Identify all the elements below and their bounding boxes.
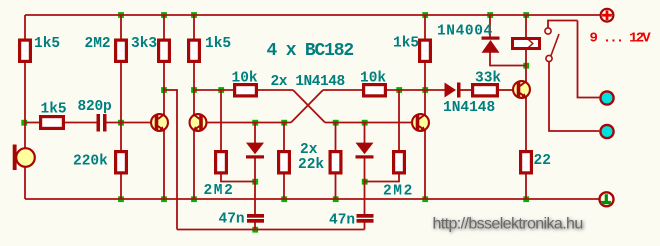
svg-text:1k5: 1k5 <box>41 102 67 118</box>
svg-text:22k: 22k <box>298 157 324 173</box>
wire junction down to C47n-2 top <box>364 182 366 215</box>
svg-text:http://bsselektronika.hu: http://bsselektronika.hu <box>433 216 583 233</box>
wire 22k-1 bottom <box>283 175 285 200</box>
wire bottom rail y=229.5 <box>177 229 365 231</box>
resistor 2M2-1 <box>216 152 227 173</box>
wire C47n-1 bottom to rail <box>254 223 256 230</box>
wire switch common down <box>549 62 599 131</box>
wire switch top to corner <box>548 21 578 28</box>
wire upper right of X to 10k-2 <box>323 89 362 91</box>
terminal output NO (cyan) <box>600 91 613 104</box>
node 220k top <box>118 120 124 126</box>
node Q1 collector <box>161 87 167 93</box>
capacitor 47n-1 plates <box>247 214 264 218</box>
wire Q3 collector <box>424 90 426 116</box>
wire Q2 base row <box>203 122 291 124</box>
wire column x=164 3k3 top <box>163 15 165 39</box>
wire column x=399 down to 2M2-2 <box>398 90 400 150</box>
wire column x=490 top to 1N4004 <box>489 15 491 37</box>
wire bottom rail up to C47n-2 <box>364 223 366 230</box>
resistor 22k-2 <box>330 152 341 173</box>
wire 1k5-5 to y90 junction <box>424 63 426 90</box>
resistor 10k-2 <box>364 85 386 96</box>
terminal ground <box>600 192 614 206</box>
node Q2 collector <box>191 87 197 93</box>
svg-text:10k: 10k <box>360 71 386 87</box>
node Q4 collector/relay <box>523 63 529 69</box>
transistor Q3 BC182 <box>412 114 429 131</box>
svg-text:2M2: 2M2 <box>204 183 235 199</box>
svg-text:47n: 47n <box>219 212 245 228</box>
node 22k-1/gnd <box>281 196 287 202</box>
resistor 22 <box>521 152 532 173</box>
wire 2M2-1 bottom <box>221 175 255 182</box>
node 3k3/+V rail <box>161 12 167 18</box>
node 220k/gnd rail <box>118 196 124 202</box>
wire 22ohm to ground rail <box>525 175 527 200</box>
node 22k-1 top <box>281 120 287 126</box>
microphone MIC <box>13 145 35 171</box>
diode D2 1N4148 vertical <box>356 143 374 155</box>
wire Q2 emitter <box>193 129 195 199</box>
wire diode2 to junction 181 <box>364 158 366 182</box>
wire column x=121 top <box>120 15 122 39</box>
transistor Q2 BC182 (mirrored) <box>190 114 207 131</box>
node Q2 emitter/gnd <box>191 196 197 202</box>
node D2 top <box>362 120 368 126</box>
wire cross-couple top horizontal <box>164 89 178 91</box>
svg-text:10k: 10k <box>232 71 258 87</box>
svg-text:22: 22 <box>534 153 551 169</box>
wire left column x=25 top <box>24 15 26 39</box>
wire column x=364.5 to diode2 <box>364 123 366 144</box>
terminal +V <box>601 9 614 22</box>
wire diode1 to junction 181 <box>254 158 256 182</box>
node 2M2-2 top <box>396 87 402 93</box>
node 22ohm/gnd <box>523 196 529 202</box>
wire 2M2-2 bottom <box>365 175 400 182</box>
wire column x=221 down to 2M2 <box>220 90 222 150</box>
resistor 1k5 (Q3 collector) <box>420 40 431 61</box>
node D1 top <box>252 120 258 126</box>
resistor 10k-1 <box>235 85 257 96</box>
node mic/R1 <box>21 120 27 126</box>
node 2M2-1 top <box>218 87 224 93</box>
wire 33k to Q4 base <box>499 89 513 91</box>
svg-text:2x 1N4148: 2x 1N4148 <box>271 74 345 90</box>
wire R-1k5h to C820p <box>65 122 97 124</box>
svg-text:220k: 220k <box>73 154 108 170</box>
wire 22k-2 bottom <box>335 175 337 200</box>
wire column x=425 1k5 top <box>424 15 426 39</box>
wire ground rail y=199 <box>25 198 599 200</box>
wire column x=526 top rail to relay <box>525 15 527 37</box>
wire diagonal lower-left to upper-right <box>291 90 323 123</box>
resistor 220k <box>116 152 127 173</box>
svg-text:1k5: 1k5 <box>205 36 231 52</box>
svg-text:820p: 820p <box>78 99 113 115</box>
node D1/2M2-1/C47n-1 <box>252 179 258 185</box>
wire Q1 emitter <box>163 129 165 199</box>
svg-text:33k: 33k <box>475 71 501 87</box>
node 22k-2/gnd <box>333 196 339 202</box>
capacitor 820p plates <box>97 114 374 223</box>
switch contact (relay) <box>545 28 559 62</box>
svg-text:1N4148: 1N4148 <box>443 100 495 116</box>
wire left column below R1 to mic <box>24 63 26 148</box>
wire C820p to Q1 base <box>107 122 152 124</box>
node 1N4004/+V rail <box>487 12 493 18</box>
node C47n-1 bottom rail <box>252 227 258 233</box>
terminal output common (cyan) <box>600 125 613 138</box>
wire column x=284 to 22k-1 <box>283 123 285 151</box>
wire column x=121 bottom 220k to rail <box>120 175 122 200</box>
wire y=90 junction Q2 to 10k <box>194 89 233 91</box>
wire diagonal upper-left to lower-right <box>293 90 325 123</box>
relay coil K1 <box>513 37 540 49</box>
wire diode1N4148h to 33k <box>461 89 472 91</box>
diode D1 1N4148 vertical (anode down) <box>246 37 500 159</box>
node relay/+V rail <box>523 12 529 18</box>
wire column x=335.5 to 22k-2 <box>335 123 337 151</box>
resistor 2M2-2 <box>394 152 405 173</box>
wire 3k3 to Q1 collector junction <box>163 63 165 90</box>
svg-text:4 x BC182: 4 x BC182 <box>267 41 354 61</box>
wire base row y=122.5 left <box>25 122 39 124</box>
diode 1N4148 horizontal <box>445 83 457 98</box>
node 2M2/+V rail <box>118 12 124 18</box>
node D2/2M2-2/C47n-2 <box>362 179 368 185</box>
wire Q4 emitter to 22ohm <box>525 96 527 150</box>
wire 1k5 to Q2 collector junction <box>193 63 195 90</box>
diode 1N4004 (cathode up) <box>482 37 500 40</box>
capacitor 47n-2 plates <box>357 214 374 218</box>
svg-text:2M2: 2M2 <box>383 184 414 200</box>
svg-text:1k5: 1k5 <box>393 36 419 52</box>
resistor 22k-1 <box>279 152 290 173</box>
wire Q2 collector <box>193 90 195 116</box>
wire relay bottom to junction <box>525 50 527 66</box>
wire 10k-1 right to diagonal start <box>258 89 293 91</box>
resistor 1k5 (Q2 collector) <box>189 40 200 61</box>
node 1k5-Q3/+V rail <box>422 12 428 18</box>
svg-text:1k5: 1k5 <box>34 36 60 52</box>
transistor Q4 BC182 <box>513 81 530 98</box>
wire Q1 collector <box>163 90 165 116</box>
resistor R1 1k5 vertical <box>20 40 31 61</box>
wire column x=194 1k5 top <box>193 15 195 39</box>
svg-text:3k3: 3k3 <box>131 36 157 52</box>
svg-text:1N4004: 1N4004 <box>437 24 493 40</box>
wire lower row to Q3 base <box>325 122 412 124</box>
wire mic to ground rail <box>24 167 26 199</box>
wire junction 181 down to C47n-1 <box>254 182 256 215</box>
node 22k-2 top <box>333 120 339 126</box>
wire Q3 emitter <box>424 129 426 199</box>
wire 10k-2 to diode 1N4148 <box>387 89 445 91</box>
resistor 33k <box>473 85 498 96</box>
svg-text:2x: 2x <box>300 142 318 158</box>
wire column x=121 middle <box>120 63 122 150</box>
wire column x=255 to diode1 <box>254 123 256 144</box>
svg-text:9 ... 12V: 9 ... 12V <box>590 31 652 47</box>
resistor 1k5 horizontal (mic coupling) <box>41 117 64 129</box>
wire cross-couple vertical x=178 <box>176 90 178 230</box>
transistor Q1 BC182 <box>151 114 168 131</box>
wire Q4 collector <box>525 66 527 84</box>
svg-text:47n: 47n <box>329 213 355 229</box>
node Q3 collector <box>422 87 428 93</box>
wire top rail +V <box>25 14 600 16</box>
node Q1 emitter/gnd <box>161 196 167 202</box>
resistor 3k3 <box>159 40 170 61</box>
wire corner down to NO output <box>578 21 600 98</box>
resistor 2M2 row1 <box>116 40 127 61</box>
node Q3 emitter/gnd <box>422 196 428 202</box>
svg-text:2M2: 2M2 <box>85 36 111 52</box>
wire 1N4004 bottom corner to junction <box>490 53 526 66</box>
node 1k5/+V rail <box>191 12 197 18</box>
